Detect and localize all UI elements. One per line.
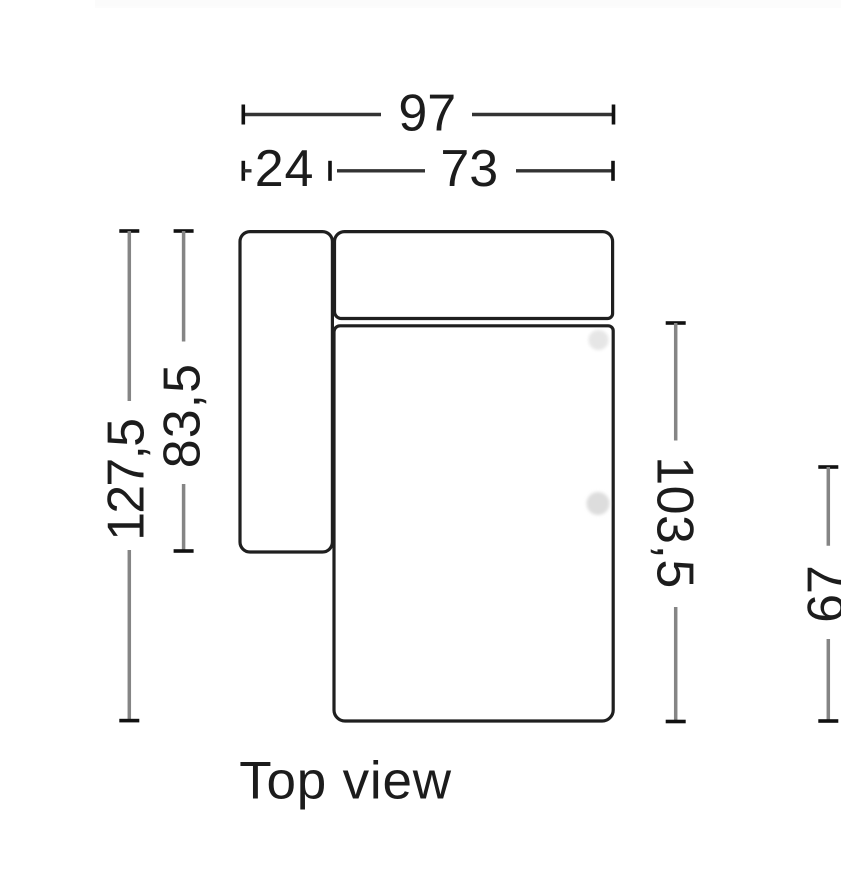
dimension 24 stub line <box>243 169 251 172</box>
dimension 103,5 bottom tick <box>666 720 686 724</box>
back cushion <box>335 232 613 319</box>
dimension 127,5 bottom tick <box>119 719 139 723</box>
dimension 97 left tick <box>242 105 246 125</box>
dimension 103,5 line upper segment <box>674 323 678 441</box>
dimension 103,5 line lower segment <box>674 607 678 722</box>
svg-text:73: 73 <box>440 140 498 198</box>
dimension 127,5 top tick <box>119 229 139 233</box>
dimension 67 line lower segment <box>827 639 831 721</box>
dimension 73 right tick <box>611 161 615 181</box>
dimension 67 bottom tick <box>818 719 838 723</box>
dimension 24 left tick <box>242 161 246 181</box>
dimension 103,5 top tick <box>666 321 686 325</box>
connector dot lower <box>587 492 610 515</box>
svg-text:Top view: Top view <box>239 752 452 811</box>
svg-text:67: 67 <box>798 565 841 623</box>
svg-text:97: 97 <box>398 84 456 142</box>
dimension 73 line left segment <box>337 169 425 172</box>
dimension 127,5 line upper segment <box>128 231 132 401</box>
dimension 83,5 line lower segment <box>182 484 186 551</box>
dimension 24/73 middle tick <box>328 161 332 181</box>
dimension 67 line upper segment <box>827 467 831 546</box>
armrest <box>240 232 332 552</box>
dimension 97 right tick <box>612 105 616 125</box>
seat <box>334 326 613 721</box>
dimension 97 line right segment <box>472 113 614 116</box>
dimension 97 line left segment <box>243 113 381 116</box>
dimension 73 line right segment <box>516 169 613 172</box>
svg-text:127,5: 127,5 <box>98 420 156 541</box>
svg-text:103,5: 103,5 <box>646 456 704 589</box>
dimension 83,5 top tick <box>174 229 194 233</box>
dimension 83,5 line upper segment <box>182 231 186 342</box>
faint top band <box>95 0 841 8</box>
dimension 67 top tick <box>818 465 838 469</box>
dimension 83,5 bottom tick <box>174 549 194 553</box>
svg-text:83,5: 83,5 <box>154 363 212 468</box>
dimension 127,5 line lower segment <box>128 550 132 721</box>
connector dot upper <box>589 330 609 350</box>
svg-text:24: 24 <box>255 140 314 198</box>
